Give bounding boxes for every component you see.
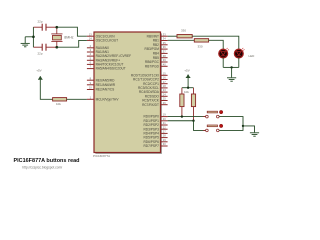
wire joining LED cathodes (223, 66, 239, 68)
pin 2 RA0/AN0 stub (87, 47, 94, 49)
svg-text:RA4/T0CKI/C1OUT: RA4/T0CKI/C1OUT (96, 63, 124, 67)
wire R2 to LED D1 anode (209, 40, 224, 49)
ground near crystal (21, 43, 30, 46)
pin 16 RC1/T1OSI/CCP2 stub (161, 79, 168, 81)
wire C1 right lead (46, 26, 57, 28)
resistor R1 330 on RB0 (177, 35, 192, 38)
svg-text:RB1: RB1 (153, 39, 159, 43)
wire R3 to MCLR pin1 (67, 98, 87, 100)
pin 10 RE2/AN7/CS stub (87, 89, 94, 91)
wire RD0 row to button SW1 (168, 116, 206, 118)
wire crystal bottom to OSC2 pin14 (57, 40, 87, 47)
junction at caps vertical (32, 35, 35, 38)
pin 9 RE1/AN6/WR stub (87, 84, 94, 86)
svg-text:RB6/PGC: RB6/PGC (145, 60, 160, 64)
junction pullup bar (187, 87, 189, 89)
wire crystal top to OSC1 pin13 (57, 27, 87, 36)
LED D2 on RB0 (234, 48, 244, 58)
junction crystal top (55, 26, 58, 29)
svg-text:8MHz: 8MHz (64, 35, 74, 39)
svg-text:RA0/AN0: RA0/AN0 (96, 46, 110, 50)
+5V power symbol for buttons (186, 74, 191, 77)
svg-text:RA1/AN1: RA1/AN1 (96, 50, 110, 54)
wire +5V down to resistor R3 (40, 79, 52, 99)
svg-text:RE2/AN7/CS: RE2/AN7/CS (96, 88, 115, 92)
svg-text:RA3/AN3/VREF+: RA3/AN3/VREF+ (96, 58, 121, 62)
pin 13 OSC1/CLKIN stub (87, 35, 94, 37)
pin 20 RD1/PSP1 stub (161, 120, 168, 122)
wire ground stem (24, 37, 26, 43)
svg-text:22p: 22p (38, 52, 43, 56)
svg-text:RC2/CCP1: RC2/CCP1 (143, 82, 159, 86)
capacitor C2 22p plates (42, 44, 46, 51)
wire C2 left lead (33, 46, 42, 48)
svg-text:330: 330 (198, 44, 203, 48)
pin 14 OSC2/CLKOUT stub (87, 39, 94, 41)
pin 15 RC0/T1OSO/T1CKI stub (161, 74, 168, 76)
wire R4 top lead (181, 88, 183, 94)
svg-text:RB0/INT: RB0/INT (147, 34, 159, 38)
pin 37 RB4 stub (161, 52, 168, 54)
junction R5 with RD1 wire (192, 120, 194, 122)
svg-text:RB3/PGM: RB3/PGM (145, 47, 160, 51)
resistor R2 330 on RB1 (194, 39, 208, 42)
svg-text:RD3/PSP3: RD3/PSP3 (143, 127, 159, 131)
wire LED D1 cathode down (222, 58, 224, 67)
junction R4 with RD0 wire (181, 115, 183, 117)
pin 29 RD6/PSP6 stub (161, 141, 168, 143)
svg-text:RB2: RB2 (153, 43, 159, 47)
svg-text:RA5/AN4/SS/C2OUT: RA5/AN4/SS/C2OUT (96, 67, 126, 71)
svg-text:RD0/PSP0: RD0/PSP0 (143, 115, 159, 119)
pin 21 RD2/PSP2 stub (161, 124, 168, 126)
svg-text:10k: 10k (56, 102, 61, 106)
svg-text:RD6/PSP6: RD6/PSP6 (143, 140, 159, 144)
svg-text:RE1/AN6/WR: RE1/AN6/WR (96, 83, 116, 87)
pin 28 RD5/PSP5 stub (161, 137, 168, 139)
svg-text:RA2/AN2/VREF-/CVREF: RA2/AN2/VREF-/CVREF (96, 54, 131, 58)
pin 1 MCLR/Vpp/THV stub (87, 98, 94, 100)
svg-text:RE0/AN5/RD: RE0/AN5/RD (96, 78, 115, 82)
svg-text:+5V: +5V (184, 69, 189, 73)
pin 25 RC6/TX/CK stub (161, 100, 168, 102)
svg-text:RD5/PSP5: RD5/PSP5 (143, 136, 159, 140)
wire +5V down to pullups (187, 78, 189, 88)
wire down to button SW2 (194, 121, 206, 131)
svg-text:LED: LED (249, 54, 256, 58)
wire C2 right lead (46, 46, 57, 48)
svg-text:RC5/SDO: RC5/SDO (145, 94, 160, 98)
svg-text:RB4: RB4 (153, 52, 159, 56)
wire buttons right side join (219, 117, 243, 131)
resistor R3 10k MCLR pull-up (53, 98, 67, 101)
svg-text:RC6/TX/CK: RC6/TX/CK (142, 99, 160, 103)
junction crystal bottom (55, 46, 58, 49)
wire left vertical joining C1 and C2 (32, 27, 34, 47)
svg-text:RD4/PSP4: RD4/PSP4 (143, 132, 159, 136)
pin 33 RB0/INT stub (161, 35, 168, 37)
pin 40 RB7/PGD stub (161, 65, 168, 67)
pin 39 RB6/PGC stub (161, 61, 168, 63)
svg-text:PIC16F877A buttons read: PIC16F877A buttons read (14, 158, 80, 164)
wire RB1 to R2 (168, 39, 195, 41)
svg-text:http://ccspicc.blogspot.com/: http://ccspicc.blogspot.com/ (22, 166, 63, 170)
wire to buttons ground (243, 126, 255, 132)
svg-text:PIC16F877A: PIC16F877A (93, 154, 110, 158)
pin 27 RD4/PSP4 stub (161, 132, 168, 134)
resistor R4 10k pull-up (180, 94, 184, 107)
pin 5 RA3/AN3/VREF+ stub (87, 59, 94, 61)
svg-text:RC7/RX/DT: RC7/RX/DT (142, 103, 159, 107)
pin 26 RC7/RX/DT stub (161, 104, 168, 106)
pin 4 RA2/AN2/VREF-/CVREF stub (87, 55, 94, 57)
svg-text:MCLR/Vpp/THV: MCLR/Vpp/THV (96, 97, 120, 101)
U1 chip shadow (95, 33, 161, 153)
pin 6 RA4/T0CKI/C1OUT stub (87, 63, 94, 65)
junction LED cathodes to ground (230, 66, 232, 68)
pin 30 RD7/PSP7 stub (161, 145, 168, 147)
svg-text:10k: 10k (184, 90, 189, 94)
pin 22 RD3/PSP3 stub (161, 128, 168, 130)
wire to crystal ground (25, 36, 33, 38)
svg-text:RB5: RB5 (153, 56, 159, 60)
pin 24 RC5/SDO stub (161, 95, 168, 97)
svg-text:RB7/PGD: RB7/PGD (145, 64, 160, 68)
svg-text:+5V: +5V (36, 68, 41, 72)
svg-text:RD1/PSP1: RD1/PSP1 (143, 119, 159, 123)
+5V power symbol for MCLR (38, 76, 43, 79)
pin 19 RD0/PSP0 stub (161, 116, 168, 118)
pin 38 RB5 stub (161, 57, 168, 59)
push button SW1 on RD0 (203, 110, 223, 117)
ground near buttons (250, 133, 259, 136)
pin 8 RE0/AN5/RD stub (87, 79, 94, 81)
wire RB0 to R1 (168, 35, 177, 37)
pin 3 RA1/AN1 stub (87, 51, 94, 53)
microcontroller U1 PIC16F877A body (94, 32, 161, 153)
svg-text:RC4/SDI/SDA: RC4/SDI/SDA (139, 90, 160, 94)
pin 36 RB3/PGM stub (161, 48, 168, 50)
wire R5 bottom lead down (193, 107, 195, 121)
wire R1 to LED D2 anode (192, 36, 239, 49)
pin 35 RB2 stub (161, 44, 168, 46)
LED D1 on RB1 (219, 48, 229, 58)
svg-text:OSC2/CLKOUT: OSC2/CLKOUT (96, 39, 119, 43)
wire to LED ground (231, 67, 233, 77)
svg-text:22p: 22p (38, 20, 43, 24)
wire R4 bottom lead down (181, 107, 183, 117)
svg-text:RD2/PSP2: RD2/PSP2 (143, 123, 159, 127)
pin 34 RB1 stub (161, 40, 168, 42)
wire RD1 to R5 junction (168, 120, 194, 122)
crystal X1 8MHz (51, 27, 62, 47)
junction buttons to ground (242, 125, 244, 127)
wire R5 top lead (193, 88, 195, 94)
wire pullup top bar (182, 87, 194, 89)
pin 23 RC4/SDI/SDA stub (161, 91, 168, 93)
pin 7 RA5/AN4/SS/C2OUT stub (87, 68, 94, 70)
svg-text:RD7/PSP7: RD7/PSP7 (143, 144, 159, 148)
pin 17 RC2/CCP1 stub (161, 83, 168, 85)
svg-text:RC3/SCK/SCL: RC3/SCK/SCL (138, 86, 159, 90)
svg-text:OSC1/CLKIN: OSC1/CLKIN (96, 34, 116, 38)
svg-text:RC1/T1OSI/CCP2: RC1/T1OSI/CCP2 (133, 78, 159, 82)
svg-text:RC0/T1OSO/T1CKI: RC0/T1OSO/T1CKI (131, 73, 159, 77)
svg-text:330: 330 (181, 29, 186, 33)
pin 18 RC3/SCK/SCL stub (161, 87, 168, 89)
push button SW2 on RD1 (203, 124, 223, 131)
resistor R5 10k pull-up (191, 94, 195, 107)
capacitor C1 22p plates (42, 24, 46, 31)
wire C1 left lead (33, 26, 42, 28)
wire LED D2 cathode down (238, 58, 240, 67)
ground under LEDs (227, 78, 236, 81)
